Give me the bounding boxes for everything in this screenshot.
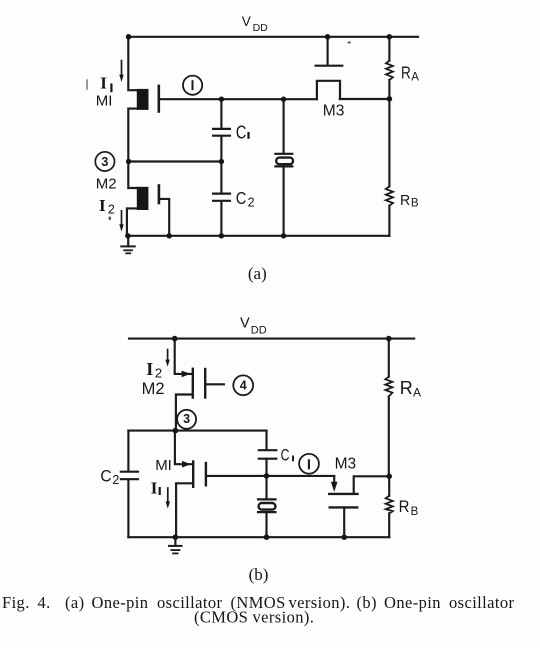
svg-text:C: C [281, 445, 290, 464]
svg-text:3: 3 [183, 412, 190, 426]
svg-text:R: R [400, 192, 410, 209]
svg-text:2: 2 [112, 473, 119, 487]
svg-text:version).: version). [253, 608, 315, 627]
svg-text:4: 4 [240, 379, 247, 393]
svg-text:One-pin: One-pin [92, 593, 149, 612]
svg-text:V: V [240, 316, 250, 332]
svg-text:C: C [236, 123, 247, 143]
svg-text:M3: M3 [335, 456, 357, 473]
svg-text:MI: MI [96, 93, 113, 110]
svg-text:C: C [236, 188, 247, 208]
svg-text:Fig.: Fig. [2, 593, 30, 612]
svg-text:3: 3 [101, 155, 108, 169]
svg-text:M3: M3 [323, 102, 345, 119]
svg-text:I: I [99, 196, 106, 215]
svg-text:2: 2 [155, 366, 162, 381]
svg-text:(b): (b) [357, 593, 377, 612]
svg-text:One-pin: One-pin [384, 593, 441, 612]
svg-text:I: I [151, 479, 158, 498]
svg-text:2: 2 [248, 196, 255, 210]
svg-text:R: R [400, 377, 413, 398]
svg-text:M2: M2 [142, 380, 165, 398]
svg-text:I: I [146, 359, 153, 379]
svg-text:R: R [401, 62, 411, 82]
svg-text:R: R [399, 498, 410, 516]
svg-text:M2: M2 [96, 176, 117, 193]
svg-text:B: B [411, 506, 419, 518]
svg-text:A: A [413, 386, 421, 400]
svg-text:2: 2 [108, 203, 115, 217]
svg-text:(a): (a) [248, 264, 267, 283]
svg-text:DD: DD [253, 22, 269, 34]
svg-text:(a): (a) [65, 593, 85, 612]
svg-text:V: V [242, 14, 251, 29]
svg-text:MI: MI [155, 457, 172, 474]
svg-text:(CMOS: (CMOS [194, 608, 248, 627]
svg-text:(b): (b) [249, 565, 269, 584]
svg-text:oscillator: oscillator [449, 593, 515, 612]
svg-text:A: A [411, 72, 419, 84]
svg-text:DD: DD [251, 325, 267, 337]
svg-text:4.: 4. [38, 593, 51, 612]
svg-text:C: C [100, 468, 111, 486]
svg-text:I: I [100, 73, 107, 92]
svg-text:B: B [411, 198, 419, 210]
